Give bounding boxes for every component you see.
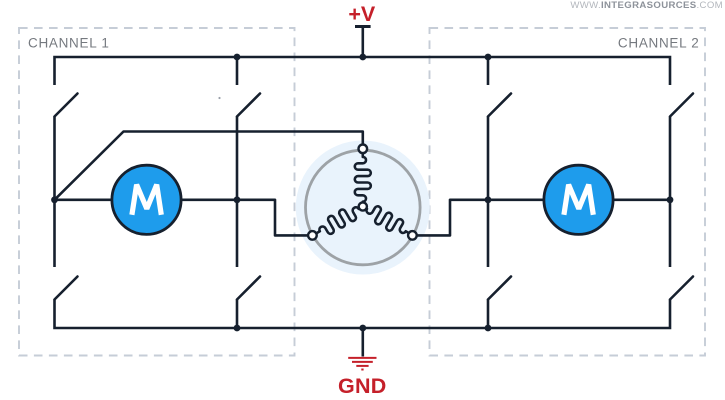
motor U3 glow halo [296,141,430,275]
ground stem [361,328,364,357]
junction dot top rail at ch2 left leg [485,54,492,61]
bottom ground rail wire [55,300,671,329]
svg-text:+V: +V [348,2,376,26]
wire motor M1 leads [55,199,238,202]
switch S4 (ch1 bottom-right) blade [237,277,260,300]
wire ch2 bottom-left leg [487,300,490,329]
winding left terminal [308,231,317,240]
winding right terminal [408,231,417,240]
stray speck [218,97,220,99]
ground symbol bars [348,358,376,370]
junction dot bottom rail at GND [359,325,366,332]
winding top terminal [359,145,368,154]
switch S6 (ch2 top-right) blade [670,94,693,117]
switch S1 (ch1 top-left) blade [55,94,78,117]
switch S8 (ch2 bottom-right) blade [670,277,693,300]
motor U3 stator ring [306,150,421,265]
winding phase C coil (to lower right) [362,202,413,241]
junction dot top rail at +V [359,54,366,61]
+V supply stem [361,28,364,58]
junction dot M2 right node [667,196,674,203]
junction dot M1 left node [51,196,58,203]
wire ch1 bottom-right leg [236,300,239,329]
motor M2 body [544,165,613,234]
switch S7 (ch2 bottom-left) blade [488,277,511,300]
wire phase B (ch1 right leg to winding left terminal) [237,200,308,236]
+V supply bar [355,25,371,28]
channel 2 dashed enclosure [430,28,706,356]
svg-text:WWW.INTEGRASOURCES.COM: WWW.INTEGRASOURCES.COM [570,0,723,11]
wire ch1 right leg upper [236,57,239,267]
wire phase C (winding right terminal to ch2 left leg) [417,200,489,236]
svg-text:CHANNEL 2: CHANNEL 2 [618,36,700,51]
wire phase A (diagonal to top of winding) [55,132,363,200]
switch S5 (ch2 top-left) blade [488,94,511,117]
motor M1 letter M [132,185,161,215]
wire ch1 left leg [53,117,56,268]
wire ch2 left leg [487,57,490,267]
top supply rail wire [55,57,671,85]
svg-text:GND: GND [338,374,387,398]
junction dot bottom rail at ch1 right leg [234,325,241,332]
wire ch2 right leg [669,117,672,268]
junction dot M2 left node [485,196,492,203]
junction dot top rail at ch1 right leg [234,54,241,61]
winding phase A coil [355,153,371,202]
motor M1 body [112,165,181,234]
channel 1 dashed enclosure [19,28,295,356]
switch S2 (ch1 top-right) blade [237,94,260,117]
motor M2 letter M [564,185,593,215]
winding phase B coil (to lower left) [312,202,363,241]
svg-text:CHANNEL 1: CHANNEL 1 [28,36,110,51]
junction dot bottom rail at ch2 left leg [485,325,492,332]
junction dot M1 right node [234,196,241,203]
switch S3 (ch1 bottom-left) blade [55,277,78,300]
wire motor M2 leads [488,199,670,202]
winding center node terminal [359,202,367,210]
